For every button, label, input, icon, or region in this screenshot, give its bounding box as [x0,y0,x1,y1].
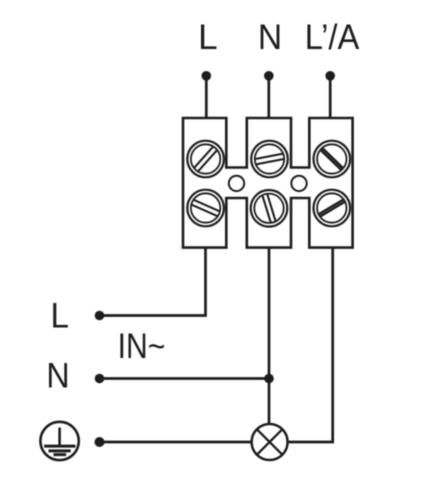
screw terminal 1 bottom (pole 1) [187,190,224,227]
svg-text:N: N [258,18,282,57]
wire N input to junction [100,377,270,380]
node dot N (left) [95,374,105,384]
wire lamp to pole 3 bottom [288,247,333,442]
svg-text:N: N [46,357,69,396]
wire L input to pole 1 bottom [100,247,206,316]
wire earth to lamp [100,441,252,444]
node dot N (top) [264,71,274,81]
terminal block TB1 outline (3-pole) [183,118,353,248]
screw terminal 2 top (pole 2, N) [251,141,288,178]
node dot L'/A (top) [325,71,335,81]
mounting hole between pole 1 and 2 [229,176,244,191]
svg-text:L: L [50,297,68,336]
node dot L (left) [95,311,105,321]
node dot L (top) [202,71,212,81]
wire L top to terminal 1 [205,76,208,120]
wire pole 2 bottom to lamp [268,247,271,424]
wire N top to terminal 2 [267,76,270,120]
node dot earth [95,437,105,447]
screw terminal 3 bottom (pole 3) [314,190,351,227]
svg-text:IN~: IN~ [118,326,166,366]
svg-text:L’/A: L’/A [305,18,360,57]
ground (protective earth symbol) [40,422,78,460]
lamp E1 (circle with cross) [252,424,288,460]
screw terminal 2 bottom (pole 2) [251,190,288,227]
wire L'/A top to terminal 3 [329,76,332,120]
screw terminal 1 top (pole 1, L) [187,141,224,178]
svg-text:L: L [198,18,217,57]
junction dot N/lamp [264,374,274,384]
screw terminal 3 top (pole 3, L'/A) [314,141,351,178]
mounting hole between pole 2 and 3 [291,176,306,191]
